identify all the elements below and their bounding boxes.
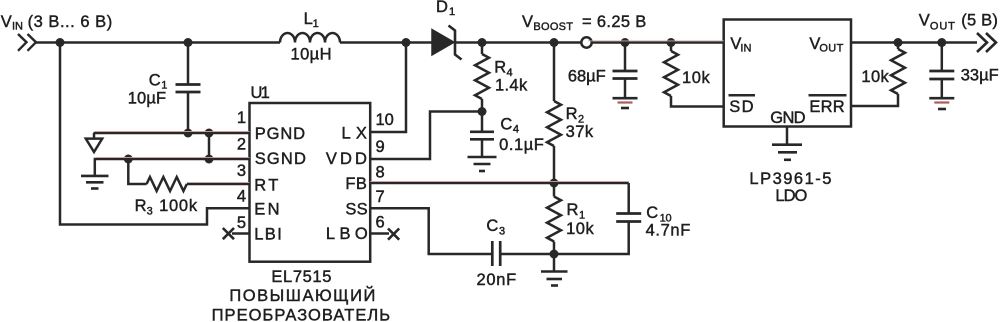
svg-text:ПРЕОБРАЗОВАТЕЛЬ: ПРЕОБРАЗОВАТЕЛЬ <box>212 307 391 322</box>
input chevron VIN <box>18 34 36 51</box>
node VIN junction <box>56 38 65 47</box>
svg-text:V: V <box>919 12 930 30</box>
resistor R3 <box>128 159 249 191</box>
svg-text:4.7nF: 4.7nF <box>646 222 691 240</box>
label SS pin7 <box>345 201 367 219</box>
svg-text:4: 4 <box>237 188 246 206</box>
label SGND pin2 <box>255 150 306 168</box>
pin number 9 <box>376 138 385 156</box>
label EL7515 <box>271 268 331 286</box>
pin6 LBO stub with X <box>370 229 399 240</box>
svg-text:EL7515: EL7515 <box>271 268 331 286</box>
pin number 10 <box>376 111 394 129</box>
svg-text:4: 4 <box>513 124 519 136</box>
svg-text:R: R <box>494 58 506 76</box>
pin number 5 <box>237 214 246 232</box>
svg-text:20nF: 20nF <box>477 271 517 289</box>
svg-text:PGND: PGND <box>255 125 305 143</box>
svg-text:R: R <box>566 105 578 123</box>
svg-text:U1: U1 <box>251 84 270 102</box>
svg-text:D: D <box>436 0 448 16</box>
wire artifact red lines <box>95 41 724 183</box>
label boost converter line1 <box>229 286 375 305</box>
svg-text:10µF: 10µF <box>128 90 166 108</box>
svg-text:(5 В): (5 В) <box>961 12 998 30</box>
svg-text:8: 8 <box>376 164 385 182</box>
label 10k right <box>861 68 889 86</box>
wire EN loop <box>60 43 250 225</box>
pin number 3 <box>237 162 246 180</box>
wire pin1-pin2 link <box>208 133 211 159</box>
label VIN (3 В... 6 В) <box>1 13 112 32</box>
resistor R2 <box>547 43 561 184</box>
label GND pin <box>770 109 805 127</box>
node FB junction <box>550 179 559 188</box>
svg-text:C: C <box>500 116 512 134</box>
svg-text:C: C <box>486 217 498 235</box>
inductor L1 <box>280 33 340 43</box>
capacitor C3 <box>492 241 554 266</box>
resistor R4 <box>475 38 489 112</box>
label ERR pin with overline <box>809 98 844 116</box>
svg-text:LBI: LBI <box>254 226 282 244</box>
svg-text:ПОВЫШАЮЩИЙ: ПОВЫШАЮЩИЙ <box>229 286 375 305</box>
svg-text:0.1µF: 0.1µF <box>499 136 544 154</box>
capacitor 33uF <box>929 43 954 99</box>
svg-text:OUT: OUT <box>930 20 955 32</box>
label C1 <box>128 71 168 107</box>
ground triangle at pin1 <box>93 133 96 139</box>
wire top rail A <box>36 41 280 44</box>
label LP3961-5 LDO <box>749 170 831 205</box>
label L1 <box>291 10 332 63</box>
node VBOOST open circle <box>581 37 591 47</box>
label 68uF <box>568 67 606 85</box>
label VOUT pin LP3961 <box>809 35 843 55</box>
svg-text:10k: 10k <box>861 68 889 86</box>
svg-text:C: C <box>646 204 658 222</box>
capacitor C4 <box>470 112 494 158</box>
pin number 7 <box>376 188 385 206</box>
label LBO pin6 <box>326 225 368 243</box>
svg-text:OUT: OUT <box>819 43 843 55</box>
svg-text:SD: SD <box>729 98 753 116</box>
svg-text:3: 3 <box>499 225 505 237</box>
svg-text:= 6.25 В: = 6.25 В <box>582 13 646 31</box>
wire VDD to C4 node <box>370 112 482 160</box>
label R4 1.4k <box>494 58 528 94</box>
node R3 junction <box>124 155 133 164</box>
label U1 <box>251 84 270 102</box>
resistor 10k right <box>851 43 905 107</box>
svg-text:1: 1 <box>313 18 319 30</box>
svg-text:VDD: VDD <box>326 150 367 168</box>
svg-text:BOOST: BOOST <box>533 21 573 33</box>
resistor R1 <box>547 183 561 254</box>
label D1 <box>436 0 455 18</box>
capacitor C1 <box>176 43 201 133</box>
svg-text:33µF: 33µF <box>961 67 999 85</box>
pin number 8 <box>376 164 385 182</box>
svg-text:LP3961-5: LP3961-5 <box>749 170 831 188</box>
wire LX drop to pin 10 <box>370 43 406 133</box>
label 33uF <box>961 67 999 85</box>
svg-text:V: V <box>522 13 533 31</box>
svg-text:SGND: SGND <box>255 150 306 168</box>
label boost converter line2 <box>212 307 391 322</box>
pin number 4 <box>237 188 246 206</box>
label R2 37k <box>566 105 594 141</box>
svg-text:10: 10 <box>376 111 394 129</box>
svg-text:IN: IN <box>740 43 751 55</box>
svg-text:100k: 100k <box>159 197 198 215</box>
resistor 10k left <box>664 38 724 107</box>
pin number 1 <box>237 109 246 127</box>
svg-text:GND: GND <box>770 109 805 127</box>
svg-text:68µF: 68µF <box>568 67 606 85</box>
label LBI pin5 <box>254 226 282 244</box>
svg-text:37k: 37k <box>566 123 594 141</box>
node out junction 1 <box>894 38 903 47</box>
svg-text:1.4k: 1.4k <box>495 77 528 95</box>
label EN pin4 <box>254 201 279 219</box>
op-amp U1 EL7515 box <box>250 103 371 262</box>
node C1 top junction <box>184 38 193 47</box>
node LX junction <box>402 38 411 47</box>
label RT pin3 <box>254 177 278 195</box>
capacitor C10 <box>554 183 641 254</box>
svg-text:SS: SS <box>345 201 367 219</box>
svg-text:10k: 10k <box>682 69 710 87</box>
node out junction 2 <box>937 38 946 47</box>
ground below SGND <box>81 176 109 189</box>
svg-text:2: 2 <box>237 136 246 154</box>
svg-text:LDO: LDO <box>775 187 807 205</box>
svg-text:L: L <box>304 10 313 28</box>
svg-text:9: 9 <box>376 138 385 156</box>
svg-text:ERR: ERR <box>809 98 844 116</box>
label FB pin8 <box>345 175 367 193</box>
label R3 100k <box>135 197 198 217</box>
svg-text:1: 1 <box>237 109 246 127</box>
node R4/C4/VDD junction <box>478 107 487 116</box>
pin number 6 <box>376 214 385 232</box>
svg-text:(3 В... 6 В): (3 В... 6 В) <box>28 13 113 31</box>
ground below R1 <box>541 254 568 286</box>
wire FB pin8 <box>370 182 629 185</box>
wire top rail out <box>851 41 977 44</box>
svg-text:10µH: 10µH <box>291 45 332 63</box>
pin5 LBI stub with X <box>223 228 250 239</box>
node VBOOST junction <box>550 38 559 47</box>
wire SS pin7 to C3 <box>370 208 491 254</box>
svg-text:RT: RT <box>254 177 278 195</box>
node R1 bottom junction <box>550 250 559 259</box>
svg-text:5: 5 <box>237 214 246 232</box>
node pin1 link junction <box>205 129 214 138</box>
svg-text:FB: FB <box>345 175 367 193</box>
label C3 20nF <box>477 217 517 289</box>
svg-text:IN: IN <box>12 20 23 32</box>
label VBOOST = 6.25 B <box>522 13 646 33</box>
diode D1 <box>432 26 724 60</box>
svg-text:10k: 10k <box>566 220 594 238</box>
label VOUT (5 B) <box>919 12 998 33</box>
label C4 0.1uF <box>499 116 544 155</box>
svg-text:R: R <box>567 201 579 219</box>
ground below C4 <box>468 157 497 171</box>
label VIN pin LP3961 <box>730 35 751 55</box>
wire PGND pin1 <box>94 132 250 135</box>
label C10 4.7nF <box>646 204 691 240</box>
wire SGND pin2 <box>95 159 250 176</box>
wire top rail B <box>340 41 432 44</box>
svg-text:3: 3 <box>237 162 246 180</box>
svg-text:R: R <box>135 197 147 215</box>
svg-text:3: 3 <box>147 205 153 217</box>
capacitor 68uF <box>613 38 638 98</box>
ground below 33uF <box>929 98 954 109</box>
svg-text:7: 7 <box>376 188 385 206</box>
label SD pin with overline <box>729 98 753 116</box>
svg-text:1: 1 <box>449 6 455 18</box>
ground below LP3961 <box>772 127 802 160</box>
svg-text:V: V <box>1 13 12 31</box>
op-amp U2 LP3961-5 box <box>724 20 851 127</box>
label PGND pin1 <box>255 125 305 143</box>
svg-text:LX: LX <box>342 124 367 142</box>
pin number 2 <box>237 136 246 154</box>
svg-text:EN: EN <box>254 201 279 219</box>
svg-text:LBO: LBO <box>326 225 368 243</box>
ground below 68uF <box>613 98 638 108</box>
output chevron <box>977 33 996 52</box>
label VDD pin9 <box>326 150 367 168</box>
label 10k left <box>682 69 710 87</box>
label LX pin10 <box>342 124 367 142</box>
node pin2 link junction <box>205 155 214 164</box>
label R1 10k <box>566 201 594 238</box>
svg-text:C: C <box>149 71 161 89</box>
node C1 bottom junction <box>184 129 193 138</box>
svg-text:6: 6 <box>376 214 385 232</box>
